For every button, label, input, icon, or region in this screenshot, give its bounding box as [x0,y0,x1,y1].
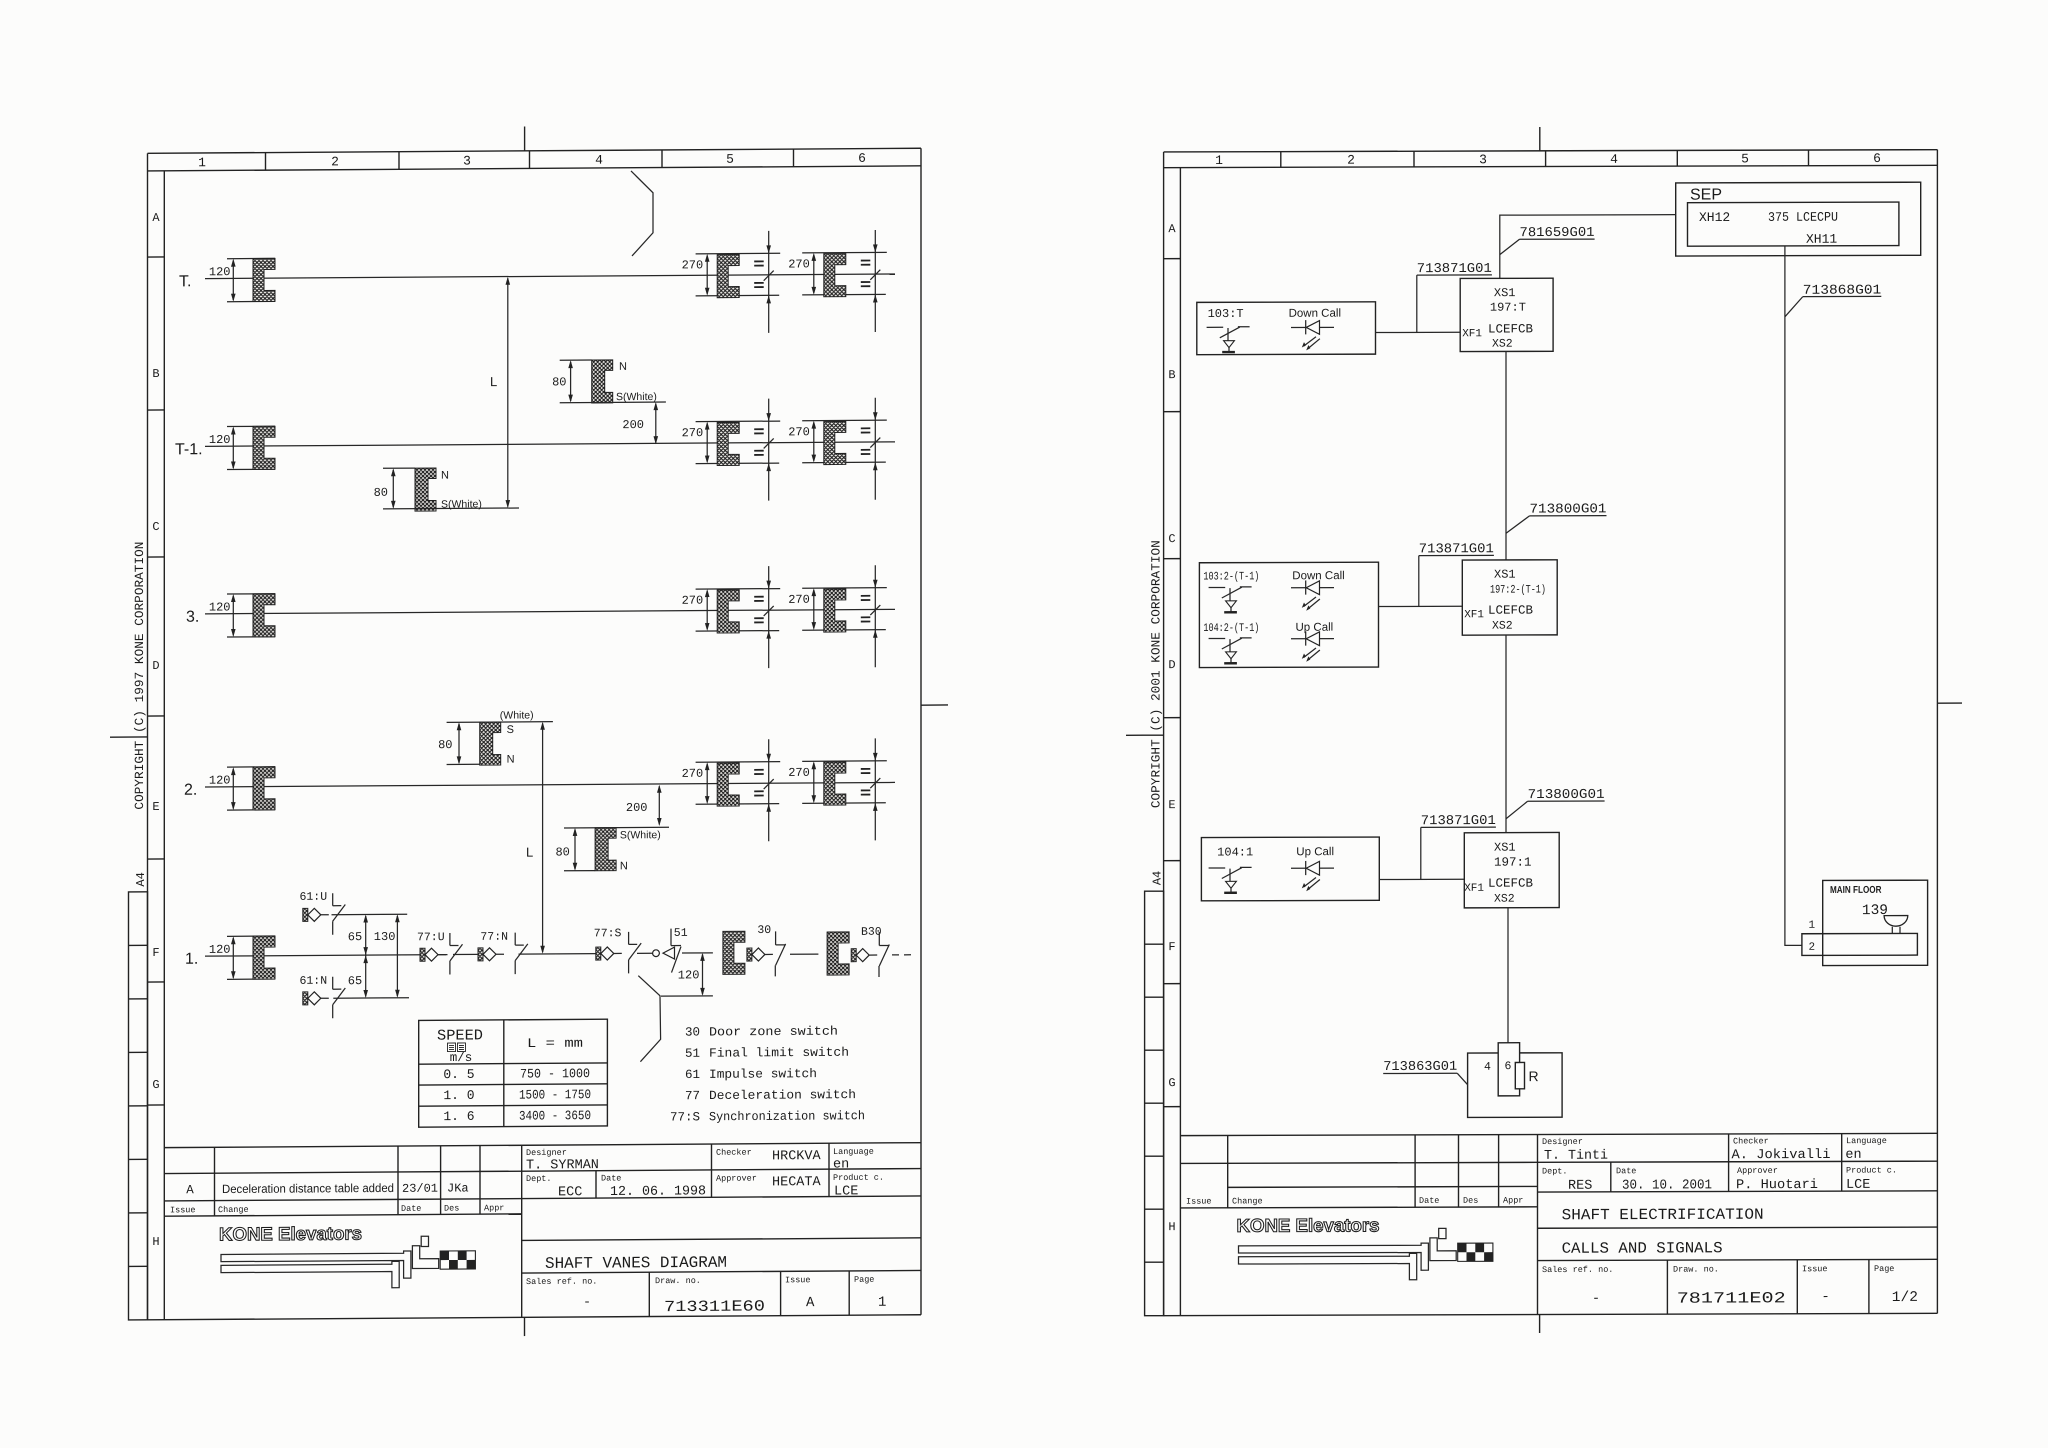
break mark top [631,171,653,256]
svg-text:Page: Page [854,1275,874,1285]
svg-text:6: 6 [1873,151,1881,166]
vane 2 with 120 dim [209,767,275,810]
L dimension line above 2 to row 1 [526,722,545,954]
svg-text:Sales ref. no.: Sales ref. no. [526,1277,597,1287]
svg-text:4: 4 [595,153,603,168]
call box 104:1 [1201,837,1379,901]
sheet1 ruler ticks [266,149,794,170]
svg-text:A: A [186,1183,194,1197]
impulse switch 61:N [300,975,346,1019]
svg-text:N: N [441,470,449,482]
SEP box [1676,182,1921,256]
svg-text:80: 80 [555,845,569,859]
wire XS2 box2 to box3 [1505,635,1507,833]
impulse switch 61:U [300,891,346,935]
svg-text:2: 2 [1347,153,1355,168]
270 vane cluster T a [682,231,781,334]
wire label 781659G01 [1500,226,1595,255]
svg-text:XF1: XF1 [1464,883,1484,895]
svg-text:SHAFT VANES DIAGRAM: SHAFT VANES DIAGRAM [545,1254,727,1273]
svg-text:A4: A4 [134,872,148,886]
svg-text:Checker: Checker [1733,1136,1769,1146]
main floor box [1802,880,1928,965]
svg-text:51: 51 [674,927,688,940]
svg-text:197:2-(T-1): 197:2-(T-1) [1490,584,1546,597]
sheet2 row letter dividers [1164,259,1181,1107]
svg-text:L: L [490,374,497,389]
270 vane cluster 2 a [682,739,781,842]
wire row1 mid [519,953,596,956]
wire SEP to XS1 [1500,215,1676,279]
svg-text:200: 200 [626,801,648,815]
svg-text:Dept.: Dept. [1542,1166,1568,1176]
svg-text:XS1: XS1 [1494,286,1516,300]
svg-text:Issue: Issue [1802,1264,1828,1274]
svg-text:5: 5 [726,152,734,167]
svg-text:SHAFT ELECTRIFICATION: SHAFT ELECTRIFICATION [1562,1206,1764,1225]
svg-text:Product c.: Product c. [833,1173,884,1183]
svg-text:Language: Language [833,1147,874,1157]
svg-text:XS1: XS1 [1494,568,1516,582]
final limit switch 51 [637,927,713,973]
svg-text:0. 5: 0. 5 [443,1067,474,1082]
door zone switch B30 [827,925,916,977]
svg-text:197:1: 197:1 [1494,856,1532,870]
svg-text:Sales ref. no.: Sales ref. no. [1542,1265,1613,1275]
svg-text:104:2-(T-1): 104:2-(T-1) [1203,622,1259,635]
wire label 713871G01 second [1419,542,1494,606]
svg-text:XF1: XF1 [1462,328,1482,340]
svg-text:RES: RES [1568,1179,1592,1194]
svg-text:750 - 1000: 750 - 1000 [520,1066,590,1081]
sheet1 ruler numbers [198,151,866,170]
call box 103/104:2-(T-1) [1199,562,1378,667]
resistor box [1468,1043,1563,1118]
svg-text:A. Jokivalli: A. Jokivalli [1732,1148,1831,1163]
svg-text:104:1: 104:1 [1217,845,1253,859]
svg-text:65: 65 [348,974,362,988]
deceleration switch 77:N [453,931,528,975]
svg-text:3400 - 3650: 3400 - 3650 [519,1108,591,1123]
svg-text:S(White): S(White) [620,829,661,841]
svg-text:80: 80 [438,738,452,752]
svg-text:65: 65 [348,930,362,944]
svg-text:-: - [1592,1292,1600,1307]
svg-text:120: 120 [678,968,700,982]
svg-text:T.: T. [179,273,191,290]
svg-text:Page: Page [1874,1264,1894,1274]
svg-text:61:N: 61:N [300,975,328,988]
svg-text:T-1.: T-1. [175,441,203,458]
svg-text:4: 4 [1484,1061,1491,1074]
svg-text:XS1: XS1 [1494,841,1516,855]
svg-text:Designer: Designer [1542,1137,1583,1147]
svg-text:(White): (White) [500,709,534,721]
vane 1 with 120 dim [209,936,275,979]
svg-text:T. SYRMAN: T. SYRMAN [526,1158,599,1173]
svg-text:L = mm: L = mm [527,1036,583,1051]
svg-text:781711E02: 781711E02 [1677,1289,1786,1307]
svg-text:T. Tinti: T. Tinti [1544,1149,1608,1164]
svg-text:77:N: 77:N [480,931,508,944]
svg-text:Deceleration switch: Deceleration switch [709,1088,856,1103]
sheet2 title block lines [1180,1133,1937,1315]
svg-text:Door zone switch: Door zone switch [709,1025,838,1040]
sheet2 frame [1164,150,1938,1316]
svg-text:N: N [620,860,628,872]
svg-text:Dept.: Dept. [526,1174,552,1184]
svg-text:1: 1 [1809,920,1816,932]
270 vane cluster T b [788,230,887,333]
svg-text:197:T: 197:T [1490,301,1526,315]
svg-text:200: 200 [622,418,644,432]
svg-text:-: - [583,1296,591,1311]
svg-text:C: C [1168,532,1175,546]
svg-text:C: C [152,520,159,534]
svg-text:F: F [1168,940,1175,954]
200 dim below 2 [626,785,662,826]
svg-text:A: A [806,1295,815,1311]
svg-text:Approver: Approver [1737,1166,1778,1176]
deceleration switch 77:U [417,931,463,975]
svg-text:4: 4 [1610,152,1618,167]
svg-text:Up Call: Up Call [1296,846,1334,858]
svg-text:E: E [1168,798,1175,812]
break mark bottom [638,976,660,1062]
svg-text:Des: Des [1463,1196,1478,1206]
svg-text:130: 130 [374,930,396,944]
svg-text:77:S: 77:S [670,1110,700,1124]
svg-text:51: 51 [685,1047,700,1061]
svg-text:30. 10. 2001: 30. 10. 2001 [1622,1178,1712,1193]
svg-text:XS2: XS2 [1492,620,1513,633]
svg-text:G: G [152,1078,159,1092]
svg-text:61:U: 61:U [300,891,328,904]
svg-text:77: 77 [685,1089,700,1103]
svg-text:SEP: SEP [1690,186,1722,203]
svg-text:P. Huotari: P. Huotari [1736,1178,1818,1193]
svg-text:3: 3 [463,153,471,168]
svg-text:A4: A4 [1151,871,1165,885]
svg-text:Designer: Designer [526,1148,567,1158]
svg-text:30: 30 [685,1026,700,1040]
svg-text:6: 6 [1505,1060,1512,1073]
wire call box3 to XS1 [1379,878,1464,880]
svg-text:1. 0: 1. 0 [443,1088,474,1103]
svg-text:77:S: 77:S [594,927,622,940]
svg-text:XH12: XH12 [1699,210,1730,225]
svg-text:XF1: XF1 [1464,609,1484,621]
svg-text:2: 2 [331,154,339,169]
wire label 713871G01 third [1421,814,1496,879]
sheet2 fold marks [1145,891,1164,1316]
svg-text:A: A [152,211,160,225]
svg-text:1: 1 [1215,153,1223,168]
svg-text:80: 80 [552,375,566,389]
wire XS2 box1 to box2 [1505,351,1507,560]
svg-text:Down Call: Down Call [1292,570,1344,582]
door zone switch 30 [723,924,819,977]
svg-text:Language: Language [1846,1136,1887,1146]
svg-text:Checker: Checker [716,1148,752,1158]
sheet1 row letter dividers [148,257,165,1105]
svg-text:E: E [152,800,159,814]
svg-text:Date: Date [401,1204,421,1214]
wire call box1 to XS1 [1376,331,1461,333]
svg-text:Issue: Issue [170,1205,196,1215]
svg-text:Change: Change [1232,1196,1263,1206]
svg-text:30: 30 [757,924,771,937]
wire XS2 box3 to resistor [1507,908,1509,1043]
svg-text:Appr: Appr [1503,1196,1523,1206]
sheet2 row letters [1168,222,1176,1234]
svg-text:2.: 2. [184,782,197,799]
svg-text:Issue: Issue [785,1275,811,1285]
svg-text:LCE: LCE [1846,1178,1870,1193]
svg-text:23/01: 23/01 [402,1182,438,1196]
svg-text:CALLS AND SIGNALS: CALLS AND SIGNALS [1562,1239,1723,1257]
magnet vane below T-1 [374,467,519,511]
long wire XH11 to main floor [1785,246,1802,946]
svg-text:LCEFCB: LCEFCB [1488,322,1534,336]
svg-text:Synchronization switch: Synchronization switch [709,1109,865,1124]
svg-text:Date: Date [1616,1166,1636,1176]
svg-text:1: 1 [198,155,206,170]
wire call box2 to XS1 [1379,605,1463,607]
svg-text:Draw. no.: Draw. no. [655,1276,701,1286]
sheet2 title block texts [1186,1136,1897,1276]
svg-text:LCEFCB: LCEFCB [1488,604,1534,618]
svg-text:375 LCECPU: 375 LCECPU [1768,210,1838,225]
svg-text:R: R [1529,1068,1539,1084]
svg-text:MAIN FLOOR: MAIN FLOOR [1830,885,1882,896]
magnet vane between T and T-1 [552,360,666,404]
svg-text:B: B [152,367,159,381]
svg-text:N: N [507,754,515,766]
svg-text:Draw. no.: Draw. no. [1673,1264,1719,1274]
svg-text:Issue: Issue [1186,1197,1212,1207]
svg-text:XH11: XH11 [1806,232,1837,247]
svg-text:en: en [1845,1148,1861,1163]
svg-text:Impulse switch: Impulse switch [709,1067,817,1082]
svg-text:Deceleration distance table ad: Deceleration distance table added [222,1181,394,1196]
svg-text:713311E60: 713311E60 [664,1297,765,1316]
wire label 713871G01 first [1417,262,1492,333]
svg-text:m/s: m/s [450,1051,473,1065]
svg-text:103:2-(T-1): 103:2-(T-1) [1203,570,1259,583]
sheet2 ruler numbers [1215,151,1881,168]
L dimension line T to vane [490,277,510,508]
LCEFCB box 197:1 [1464,832,1559,907]
270 vane cluster T-1 b [788,398,887,501]
svg-text:3: 3 [1479,152,1487,167]
svg-text:COPYRIGHT (C) 1997 KONE CORPOR: COPYRIGHT (C) 1997 KONE CORPORATION [133,542,147,810]
svg-text:en: en [833,1157,849,1172]
svg-text:Change: Change [218,1205,249,1215]
sheet1 frame [148,148,922,1320]
svg-text:A: A [1168,222,1176,236]
svg-text:LCE: LCE [834,1184,858,1199]
LCEFCB box 197:T [1460,278,1553,351]
vane 3 with 120 dim [209,594,275,637]
svg-text:ECC: ECC [558,1185,582,1200]
wire label 713863G01 [1383,1060,1467,1085]
svg-text:-: - [1821,1289,1829,1305]
270 vane cluster 2 b [788,738,887,841]
svg-text:H: H [1168,1220,1175,1234]
wire label 713800G01 first [1506,502,1607,533]
svg-text:S(White): S(White) [616,391,657,403]
wire label 713868G01 [1785,284,1881,317]
sheet1 fold marks [129,892,148,1320]
sheet1 speed table [419,1019,608,1127]
synchronization switch 77:S [594,927,641,974]
svg-text:XS2: XS2 [1494,893,1515,906]
magnet vane above 2 (White S/N) [438,709,553,766]
svg-text:Up Call: Up Call [1296,622,1334,634]
svg-text:Product c.: Product c. [1846,1165,1897,1175]
svg-text:S(White): S(White) [441,498,482,510]
sheet1 KONE logo [219,1222,475,1289]
svg-text:Date: Date [601,1173,621,1183]
vane T-1 with 120 dim [209,426,275,469]
270 vane cluster 3 a [682,566,781,669]
sheet2 KONE logo [1237,1214,1493,1280]
sheet2 ruler ticks [1281,150,1809,167]
svg-text:COPYRIGHT (C) 2001 KONE CORPOR: COPYRIGHT (C) 2001 KONE CORPORATION [1150,540,1164,808]
svg-text:HRCKVA: HRCKVA [772,1149,822,1164]
svg-text:Appr: Appr [484,1203,504,1213]
magnet vane below 2 (S White/N) [555,827,669,873]
200 dim between vane and T-1 [622,402,658,444]
svg-text:2: 2 [1809,942,1816,954]
svg-text:1. 6: 1. 6 [443,1109,474,1124]
svg-text:5: 5 [1741,151,1749,166]
svg-text:Approver: Approver [716,1174,757,1184]
sheet1 title block lines [164,1143,921,1320]
svg-text:L: L [526,845,533,860]
svg-text:H: H [152,1235,159,1249]
svg-text:N: N [619,361,627,373]
sheet1 center marks [110,124,948,1339]
LCEFCB box 197:2-(T-1) [1462,560,1557,635]
svg-text:1500 - 1750: 1500 - 1750 [519,1087,591,1102]
svg-text:D: D [152,659,159,673]
svg-text:12. 06. 1998: 12. 06. 1998 [610,1184,706,1200]
svg-text:3.: 3. [186,609,199,626]
svg-text:G: G [1168,1076,1175,1090]
65/130 dims row1 [332,914,410,998]
svg-text:Date: Date [1419,1196,1439,1206]
svg-text:1.: 1. [185,951,198,968]
svg-text:HECATA: HECATA [772,1175,822,1190]
svg-text:F: F [152,946,159,960]
svg-text:SPEED: SPEED [437,1027,483,1044]
svg-text:Des: Des [444,1203,459,1213]
svg-text:Final limit switch: Final limit switch [709,1046,849,1061]
svg-text:LCEFCB: LCEFCB [1488,877,1534,891]
call box 103:T [1197,302,1376,355]
svg-text:S: S [507,724,514,736]
sheet1 legend [670,1024,865,1124]
sheet1 title block texts [170,1146,884,1290]
svg-text:103:T: 103:T [1208,307,1244,321]
svg-text:1/2: 1/2 [1892,1290,1918,1306]
svg-text:Down Call: Down Call [1289,308,1341,320]
svg-text:77:U: 77:U [417,931,445,944]
120 dim under 51 [661,953,713,996]
svg-text:1: 1 [878,1295,886,1311]
svg-text:B: B [1168,368,1175,382]
svg-text:XS2: XS2 [1492,338,1513,351]
svg-text:6: 6 [858,151,866,166]
sheet2 center marks [1126,126,1962,1335]
wire label 713800G01 second [1506,788,1605,819]
svg-text:80: 80 [374,486,388,500]
vane T with 120 dim [209,258,275,301]
270 vane cluster T-1 a [682,399,781,502]
sheet1 row letters [152,211,160,1249]
svg-text:JKa: JKa [447,1181,469,1195]
270 vane cluster 3 b [788,565,887,668]
svg-text:D: D [1168,658,1175,672]
svg-text:61: 61 [685,1068,700,1082]
